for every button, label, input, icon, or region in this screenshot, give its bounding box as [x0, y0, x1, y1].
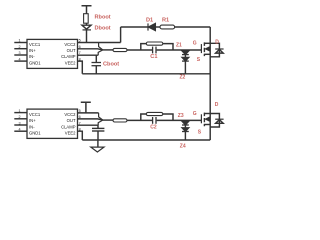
svg-text:4: 4: [19, 57, 21, 61]
M1 body diode loop: [210, 43, 223, 57]
wire bottom rail: [82, 139, 210, 141]
resistor R1: [160, 25, 210, 29]
transistor M2 gate bar: [200, 114, 202, 123]
wire CLAMP stub bottom: [78, 124, 99, 126]
svg-text:4: 4: [19, 127, 21, 131]
wire OUT stub bottom: [78, 119, 103, 120]
svg-text:Z2: Z2: [180, 75, 186, 81]
svg-text:IN+: IN+: [29, 118, 36, 123]
svg-text:VCC1: VCC1: [29, 112, 41, 117]
wire VCC2 stub bottom: [78, 112, 99, 114]
M2 body diode loop: [210, 114, 223, 128]
svg-text:VEE2: VEE2: [65, 60, 76, 65]
wire top branch: [121, 26, 148, 28]
svg-text:Z1: Z1: [176, 43, 182, 49]
svg-text:OUT: OUT: [67, 48, 76, 53]
U2 pin 4 stub GND1: [14, 130, 27, 132]
U1 pin 4 stub GND1: [14, 60, 27, 62]
svg-text:D: D: [215, 39, 219, 45]
svg-text:Cboot: Cboot: [103, 62, 119, 68]
wire VEE2 to rail: [78, 61, 83, 74]
capacitor C2: [153, 117, 156, 124]
wire riser to D1 branch: [120, 27, 122, 43]
wire to gate: [157, 49, 202, 51]
svg-text:VEE2: VEE2: [65, 131, 76, 136]
capacitor Cboot: [92, 63, 102, 74]
svg-text:VCC2: VCC2: [64, 112, 76, 117]
IC U2 body: [27, 109, 78, 138]
svg-text:S: S: [197, 57, 201, 63]
svg-text:D: D: [215, 102, 219, 108]
wire RC loop: [141, 44, 173, 50]
resistor Rg2: [113, 119, 127, 122]
transistor M1 gate bar: [200, 44, 202, 53]
svg-text:C2: C2: [150, 125, 157, 131]
svg-text:3: 3: [19, 121, 21, 125]
supply T-bar bottom: [81, 102, 91, 113]
supply T-bar top: [82, 6, 92, 14]
svg-text:Z3: Z3: [178, 113, 184, 119]
resistor Rg1: [113, 48, 127, 51]
wire RC loop bottom: [141, 114, 173, 120]
svg-text:G: G: [193, 41, 197, 47]
svg-text:CLAMP: CLAMP: [61, 54, 76, 59]
svg-text:VCC1: VCC1: [29, 42, 41, 47]
M2 arrow: [205, 117, 209, 121]
U1 pin 2 stub IN+: [14, 48, 27, 50]
diode Dboot: [82, 25, 91, 42]
wire VCC2 node: [78, 42, 121, 44]
svg-text:D1: D1: [146, 17, 153, 23]
wire: [127, 49, 152, 51]
svg-text:3: 3: [19, 51, 21, 55]
U1 pin 3 stub IN-: [14, 54, 27, 56]
transistor M1 channel bar: [203, 42, 205, 56]
svg-text:CLAMP: CLAMP: [61, 124, 76, 129]
U2 labels: [19, 109, 81, 136]
svg-text:IN-: IN-: [29, 54, 35, 59]
M2 source stub: [204, 124, 210, 126]
transistor M2 channel bar: [203, 113, 205, 127]
U1 labels: [19, 39, 81, 66]
U1 pin 1 stub VCC1: [14, 42, 27, 44]
svg-text:Z4: Z4: [180, 144, 186, 150]
M2 drain stub: [204, 113, 210, 115]
wire VEE2 rail: [82, 73, 210, 75]
wire to gate bottom: [157, 119, 202, 121]
wire clamp vertical: [95, 55, 97, 62]
svg-text:R1: R1: [162, 17, 169, 23]
wire: [127, 119, 152, 121]
svg-text:Rboot: Rboot: [95, 14, 111, 20]
wire gate feed: [103, 49, 113, 51]
resistor Rboot: [84, 14, 89, 24]
svg-text:IN+: IN+: [29, 48, 36, 53]
zener Z1: [182, 50, 189, 55]
svg-text:1: 1: [19, 109, 21, 113]
svg-text:1: 1: [19, 39, 21, 43]
wire VEE2 to rail bottom: [78, 131, 83, 140]
svg-text:5: 5: [79, 109, 81, 113]
capacitor C3: [92, 128, 104, 140]
svg-text:VCC2: VCC2: [64, 42, 76, 47]
wire chevron merge: [98, 43, 103, 56]
U2 pin 2 stub IN+: [14, 118, 27, 120]
svg-text:Dboot: Dboot: [95, 25, 111, 31]
svg-text:G: G: [193, 111, 197, 117]
svg-text:GND1: GND1: [29, 131, 41, 136]
wire switch node vertical: [209, 27, 211, 140]
svg-text:OUT: OUT: [67, 118, 76, 123]
svg-text:2: 2: [19, 115, 21, 119]
wire OUT stub: [78, 49, 103, 50]
capacitor C1: [153, 47, 156, 54]
resistor loop R2: [146, 112, 163, 115]
zener Z4: [182, 125, 189, 140]
M1 arrow: [205, 47, 209, 51]
svg-text:IN-: IN-: [29, 124, 35, 129]
svg-text:C1: C1: [150, 54, 157, 60]
diode D1: [148, 23, 160, 30]
M1 source stub: [204, 53, 210, 55]
svg-text:S: S: [198, 129, 202, 135]
IC U1 body: [27, 39, 78, 68]
resistor loop R: [146, 42, 163, 45]
U2 pin 1 stub VCC1: [14, 112, 27, 114]
ground: [91, 140, 104, 152]
svg-text:GND1: GND1: [29, 60, 41, 65]
wire clamp vertical bottom: [97, 125, 99, 128]
wire chevron merge bottom: [98, 113, 103, 125]
zener Z3: [182, 120, 189, 125]
M1 drain stub: [204, 42, 210, 44]
wire: [86, 23, 88, 25]
wire CLAMP stub: [78, 54, 99, 56]
zener Z2: [182, 55, 189, 74]
wire gate feed bottom: [103, 119, 113, 121]
svg-text:2: 2: [19, 45, 21, 49]
U2 pin 3 stub IN-: [14, 124, 27, 126]
